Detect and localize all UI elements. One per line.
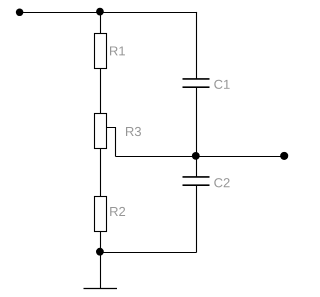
resistor R2 [95, 197, 107, 232]
terminal node: input (top left) [16, 9, 24, 16]
junction: output node at right rail [192, 152, 200, 160]
label R3 [126, 127, 141, 136]
wire: R2 bottom to bottom junction [100, 232, 102, 253]
wire: R1 bottom to R3 top [100, 69, 102, 115]
wire: top net from input terminal to right rail [20, 12, 197, 14]
junction: bottom node [96, 248, 104, 256]
wire: output junction to C2 top [196, 157, 198, 178]
resistor R1 [95, 34, 107, 69]
label R1 [110, 46, 125, 55]
capacitor C1 [183, 79, 210, 87]
wire: bottom junction down to ground [100, 253, 102, 289]
wire: output net horizontal [116, 156, 285, 158]
wire: bottom net to right rail [101, 252, 197, 254]
ground [84, 288, 118, 290]
capacitor C2 [183, 177, 210, 185]
wire: top junction to R1 top [100, 13, 102, 35]
label C2 [214, 178, 229, 187]
wire: C2 bottom to bottom net [196, 185, 198, 252]
terminal node: output (right) [280, 152, 288, 160]
resistor R3 (potentiometer body) [95, 114, 107, 149]
wire: R3 wiper tap down to output net [107, 128, 116, 157]
wire: R3 bottom to R2 top [100, 149, 102, 198]
wire: right rail from top corner to C1 [196, 12, 198, 79]
wire: C1 bottom to output junction [196, 87, 198, 156]
junction: top node at R1 [96, 8, 104, 16]
label R2 [110, 207, 125, 216]
label C1 [214, 80, 229, 89]
